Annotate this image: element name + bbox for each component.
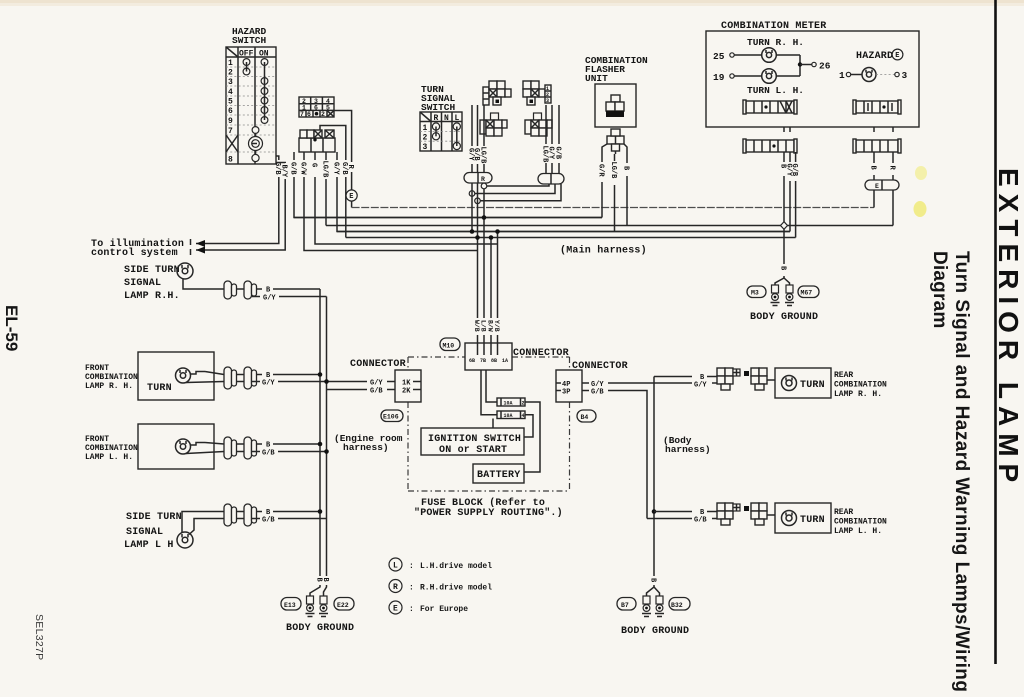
trunk wire G left bbox=[326, 297, 328, 519]
inline connectors side LH bbox=[224, 504, 257, 526]
turn R.H. indicator lamp bbox=[762, 48, 777, 63]
turn signal switch label bbox=[421, 84, 456, 113]
wires M10 to fuses bbox=[481, 370, 497, 415]
svg-text:LAMP L. H.: LAMP L. H. bbox=[85, 453, 133, 462]
wires side LH up to connectors bbox=[182, 512, 224, 535]
svg-text:7B: 7B bbox=[480, 358, 486, 364]
sidebar rule bbox=[994, 0, 997, 664]
inline connector capsule right bbox=[538, 174, 564, 185]
svg-text:1: 1 bbox=[228, 59, 233, 68]
svg-text:TURN L. H.: TURN L. H. bbox=[747, 85, 804, 96]
wire G/B to rear LH bbox=[647, 517, 717, 525]
trunk B labels left bbox=[310, 519, 329, 597]
svg-text:9: 9 bbox=[228, 117, 233, 126]
connector M10 capsule bbox=[440, 338, 460, 351]
svg-text:G/Y: G/Y bbox=[694, 382, 707, 390]
wire LG/B from turn signal switch bbox=[478, 105, 486, 173]
meter harness connector left bbox=[743, 139, 797, 156]
svg-text:5: 5 bbox=[228, 98, 233, 107]
svg-text::: : bbox=[409, 605, 414, 614]
svg-text:E: E bbox=[393, 605, 398, 614]
svg-text:1: 1 bbox=[839, 70, 845, 81]
svg-text:G/B: G/B bbox=[370, 388, 383, 396]
wire G/Y hazard to bus L4 bbox=[331, 152, 790, 232]
svg-text:6: 6 bbox=[307, 111, 311, 118]
rear LH harness connectors bbox=[717, 503, 775, 525]
svg-text:LAMP R. H.: LAMP R. H. bbox=[85, 382, 133, 391]
wire G/Y from turn signal switch bbox=[466, 105, 474, 173]
vertical wire x477.5 to connector M10 bbox=[477, 183, 479, 318]
svg-text:2: 2 bbox=[423, 134, 428, 143]
svg-text:LAMP R.H.: LAMP R.H. bbox=[124, 291, 180, 302]
rear combination lamp L.H. label bbox=[834, 508, 887, 536]
wire G/B right group bbox=[553, 105, 561, 174]
connector M67 capsule bbox=[798, 286, 819, 298]
svg-text:COMBINATION: COMBINATION bbox=[85, 444, 138, 453]
bus L4 wire G/Y bbox=[337, 231, 790, 233]
svg-text:R: R bbox=[393, 583, 398, 592]
svg-text:COMBINATION: COMBINATION bbox=[834, 381, 887, 390]
combination flasher unit box bbox=[595, 84, 636, 127]
hazard lamp label with Europe marker bbox=[856, 49, 903, 62]
svg-text:E106: E106 bbox=[383, 414, 399, 421]
connector B4 capsule bbox=[577, 410, 596, 422]
vertical wire x484 to connector M10 bbox=[483, 189, 485, 318]
svg-text:Y/B: Y/B bbox=[493, 320, 500, 332]
svg-text:B32: B32 bbox=[671, 602, 683, 609]
wires into M10 connector bbox=[478, 335, 498, 343]
svg-text:R.H.drive model: R.H.drive model bbox=[420, 584, 492, 593]
svg-text:LG/B: LG/B bbox=[320, 161, 328, 179]
ignition switch box bbox=[421, 428, 524, 456]
wire R from hazard grid via Europe marker to bus L1 bbox=[334, 111, 357, 208]
svg-text:harness): harness) bbox=[665, 444, 711, 455]
svg-text:G/B: G/B bbox=[288, 162, 296, 175]
wire B front RH to trunk bbox=[257, 372, 323, 380]
svg-text:LAMP L H: LAMP L H bbox=[124, 540, 174, 551]
svg-text:7: 7 bbox=[300, 111, 304, 118]
wire LG/B right group bbox=[540, 105, 548, 174]
svg-text:3: 3 bbox=[228, 78, 233, 87]
wire fuse lower to ignition switch bbox=[524, 415, 533, 437]
svg-text:CONNECTOR: CONNECTOR bbox=[513, 348, 569, 359]
body harness label bbox=[663, 435, 711, 455]
wire G/B B4 to rear LH bbox=[582, 389, 647, 519]
svg-text:SIDE TURN: SIDE TURN bbox=[124, 265, 180, 276]
svg-text:B7: B7 bbox=[621, 602, 629, 609]
crossover wire 2 between capsules bbox=[469, 184, 555, 196]
wire G/B from hazard switch row7 to illumination arrow bbox=[196, 156, 281, 244]
wire G/R flasher to bus L2 bbox=[596, 144, 607, 218]
fuse block chain outline bbox=[408, 357, 570, 491]
svg-text:COMBINATION: COMBINATION bbox=[834, 518, 887, 527]
highlighter mark 1 bbox=[915, 166, 927, 180]
svg-text:W/B: W/B bbox=[473, 320, 480, 332]
svg-text:LAMP L. H.: LAMP L. H. bbox=[834, 527, 882, 536]
svg-text:ON: ON bbox=[259, 50, 269, 59]
svg-text:G/B: G/B bbox=[694, 517, 707, 525]
meter box lower ticks bbox=[784, 127, 893, 132]
inline connectors side RH bbox=[224, 281, 257, 299]
svg-text:2K: 2K bbox=[402, 388, 411, 396]
svg-text:4: 4 bbox=[228, 88, 233, 97]
front combination lamp L.H. label bbox=[85, 435, 138, 462]
svg-text:E13: E13 bbox=[284, 602, 296, 609]
fuse block label bbox=[414, 497, 563, 519]
wire G/Y side RH bbox=[252, 295, 327, 303]
wire G hazard to bus L6 bbox=[309, 152, 497, 244]
svg-text:B/W: B/W bbox=[487, 320, 494, 332]
vertical wire x491 from bus L5 to connector M10 bbox=[490, 238, 492, 319]
combination meter box bbox=[706, 31, 919, 127]
svg-text:SIDE TURN: SIDE TURN bbox=[126, 512, 182, 523]
svg-text:HAZARD: HAZARD bbox=[856, 51, 893, 62]
meter pin 1 bbox=[839, 70, 862, 81]
wire LG/B hazard to bus L3 bbox=[320, 152, 328, 226]
svg-text:3: 3 bbox=[546, 98, 549, 104]
inline connectors front RH bbox=[224, 367, 257, 389]
rear combination lamp R.H. box bbox=[775, 368, 831, 398]
hazard indicator lamp bbox=[862, 68, 876, 82]
side turn signal lamp L.H. label bbox=[124, 512, 182, 551]
M10 fuse block connector box bbox=[465, 343, 512, 370]
meter pin 26 bbox=[812, 61, 831, 72]
body ground M3 M67 assembly bbox=[771, 285, 795, 306]
body ground B7 B32 assembly bbox=[642, 596, 664, 617]
svg-text:TURN: TURN bbox=[147, 383, 172, 394]
svg-text:G: G bbox=[309, 163, 317, 167]
battery box bbox=[473, 464, 524, 483]
connector B32 capsule bbox=[669, 598, 690, 611]
svg-text:SIGNAL: SIGNAL bbox=[126, 527, 163, 538]
svg-text:EXTERIOR LAMP: EXTERIOR LAMP bbox=[993, 168, 1024, 489]
svg-text:FRONT: FRONT bbox=[85, 435, 109, 444]
wire B/Y from hazard switch row8 to illumination arrow bbox=[196, 163, 288, 251]
svg-text:3P: 3P bbox=[562, 389, 570, 397]
highlighter mark 2 bbox=[914, 201, 927, 217]
svg-text:Turn Signal and Hazard Warning: Turn Signal and Hazard Warning Lamps/Wir… bbox=[951, 251, 972, 692]
legend E bbox=[389, 601, 468, 614]
bus L3 wire LG/B bbox=[326, 225, 893, 227]
svg-text:LG/B: LG/B bbox=[609, 162, 617, 180]
svg-text:G/B: G/B bbox=[262, 517, 275, 525]
svg-text:BODY GROUND: BODY GROUND bbox=[286, 623, 354, 634]
svg-text:REAR: REAR bbox=[834, 508, 853, 517]
wire G/B side LH joining trunk bbox=[252, 517, 327, 525]
meter internal connector left bbox=[743, 100, 797, 114]
svg-text:M10: M10 bbox=[443, 343, 455, 350]
svg-text:3: 3 bbox=[423, 143, 428, 152]
svg-text:2: 2 bbox=[321, 111, 325, 118]
wire B meter right to capsule E bbox=[868, 156, 876, 180]
svg-text:B4: B4 bbox=[581, 414, 589, 421]
svg-text:B/Y: B/Y bbox=[280, 165, 288, 178]
turn signal harness connector upper left bbox=[483, 81, 511, 105]
wire G/B meter to bus L5 bbox=[790, 156, 798, 238]
wire B side RH bbox=[257, 287, 321, 295]
bus L2 wire G/B bbox=[294, 217, 602, 219]
front combination lamp R.H. label bbox=[85, 364, 138, 391]
inline connector capsule E meter bbox=[865, 180, 899, 190]
legend R bbox=[389, 580, 492, 593]
wire B to rear LH bbox=[654, 509, 717, 517]
svg-text:SWITCH: SWITCH bbox=[232, 35, 267, 46]
svg-text:G/B: G/B bbox=[591, 389, 604, 397]
hazard switch contact table bbox=[226, 47, 276, 165]
svg-text:10A: 10A bbox=[504, 401, 513, 407]
svg-text:control system: control system bbox=[91, 247, 178, 259]
svg-text:G/Y: G/Y bbox=[262, 380, 275, 388]
svg-text:BODY GROUND: BODY GROUND bbox=[621, 626, 689, 637]
svg-text:BODY GROUND: BODY GROUND bbox=[750, 312, 818, 323]
svg-text:G/Y: G/Y bbox=[546, 147, 554, 160]
side turn signal lamp L.H. bulb bbox=[177, 532, 193, 548]
wire B side LH to trunk bbox=[257, 509, 323, 517]
To illumination control system text bbox=[91, 238, 191, 259]
svg-text:G/B: G/B bbox=[790, 164, 798, 177]
svg-text:8B: 8B bbox=[491, 358, 497, 364]
svg-text:For Europe: For Europe bbox=[420, 605, 468, 614]
svg-text:6: 6 bbox=[228, 107, 233, 116]
svg-text:TURN R. H.: TURN R. H. bbox=[747, 37, 804, 48]
svg-text::: : bbox=[409, 562, 414, 571]
front combination lamp L.H. box bbox=[138, 424, 214, 469]
svg-text:L: L bbox=[393, 562, 398, 571]
bus L5 wire G/B bbox=[346, 237, 796, 239]
wire R meter right to capsule E bbox=[887, 156, 895, 180]
svg-text:G/Y: G/Y bbox=[370, 380, 383, 388]
combination flasher unit label bbox=[585, 55, 648, 84]
inline connector capsule R bbox=[464, 173, 492, 184]
svg-text:M67: M67 bbox=[801, 290, 813, 297]
crossover wire 1 between capsules bbox=[481, 183, 549, 189]
turn L.H. indicator lamp bbox=[762, 69, 777, 84]
svg-text:G/W: G/W bbox=[298, 162, 306, 175]
wire LG/B flasher to bus L4 bbox=[609, 154, 617, 232]
connector E22 capsule bbox=[334, 598, 354, 611]
hazard switch connector block bbox=[299, 130, 335, 152]
svg-text:2: 2 bbox=[228, 69, 233, 78]
trunk wire B right bbox=[654, 374, 717, 576]
svg-text:10A: 10A bbox=[504, 413, 513, 419]
svg-text:"POWER SUPPLY ROUTING".): "POWER SUPPLY ROUTING".) bbox=[414, 507, 563, 519]
turn signal harness connector lower left bbox=[480, 113, 507, 136]
svg-text:3: 3 bbox=[902, 70, 908, 81]
flasher unit connector bbox=[607, 129, 624, 154]
svg-text:25: 25 bbox=[713, 51, 725, 62]
engine room harness connector box E106 bbox=[395, 370, 421, 402]
rear combination lamp L.H. box bbox=[775, 503, 831, 533]
svg-text:UNIT: UNIT bbox=[585, 73, 608, 84]
meter pin 25 bbox=[713, 51, 762, 62]
bus L1 wire R bbox=[352, 207, 874, 209]
svg-text:6: 6 bbox=[314, 105, 318, 112]
wire lamp2 to node bbox=[776, 75, 800, 77]
svg-text:OFF: OFF bbox=[239, 50, 254, 59]
junction dots on buses bbox=[470, 229, 475, 234]
svg-text:COMBINATION: COMBINATION bbox=[85, 373, 138, 382]
svg-text:TURN: TURN bbox=[800, 515, 825, 526]
svg-text:harness): harness) bbox=[343, 442, 389, 453]
wire G/B hazard to bus L2 bbox=[288, 152, 602, 218]
svg-text:E: E bbox=[349, 193, 353, 201]
wire G/Y B4 to rear RH bbox=[582, 381, 717, 390]
svg-text:L/B: L/B bbox=[480, 320, 487, 332]
wire side RH lamp to connectors bbox=[183, 279, 224, 289]
svg-text:BATTERY: BATTERY bbox=[477, 470, 520, 481]
side turn signal lamp R.H. bulb bbox=[177, 263, 193, 279]
body harness connector box B4 bbox=[556, 370, 582, 402]
svg-text:1K: 1K bbox=[402, 380, 411, 388]
svg-text:N: N bbox=[444, 114, 449, 123]
hazard switch label bbox=[232, 26, 267, 46]
wire G/W hazard to bus L7 bbox=[298, 152, 477, 251]
svg-text:Diagram: Diagram bbox=[929, 251, 950, 328]
wire G/B hazard over block to bus L5 bbox=[320, 126, 348, 238]
svg-text:G/R: G/R bbox=[596, 164, 604, 177]
meter pin 3 bbox=[876, 70, 908, 81]
meter pin 19 bbox=[713, 72, 762, 83]
wires front LH to connectors bbox=[186, 443, 224, 454]
meter internal connector right bbox=[853, 100, 901, 114]
svg-text:6B: 6B bbox=[469, 358, 475, 364]
trunk B label right bbox=[647, 578, 660, 596]
svg-text:(Main harness): (Main harness) bbox=[560, 245, 647, 257]
svg-text:LAMP R. H.: LAMP R. H. bbox=[834, 390, 882, 399]
side turn signal lamp R.H. label bbox=[124, 265, 180, 302]
arrow to illumination control system (lower) bbox=[196, 247, 205, 254]
svg-text:4: 4 bbox=[522, 413, 525, 419]
svg-text:7: 7 bbox=[228, 127, 233, 136]
rear combination lamp R.H. label bbox=[834, 371, 887, 399]
fuse 10A lower bbox=[497, 411, 525, 419]
wire G/Y front RH to connector E106 bbox=[252, 379, 395, 387]
turn signal harness connector upper right bbox=[523, 81, 551, 105]
rear RH harness connectors bbox=[717, 368, 775, 390]
svg-text:G/Y: G/Y bbox=[331, 162, 339, 175]
svg-text:L.H.drive model: L.H.drive model bbox=[420, 562, 492, 571]
svg-text:SIGNAL: SIGNAL bbox=[124, 278, 161, 289]
connector E106 capsule bbox=[381, 410, 403, 422]
svg-text::: : bbox=[409, 584, 414, 593]
svg-text:E: E bbox=[875, 183, 879, 190]
trunk wire B left bbox=[319, 289, 321, 576]
vertical wire x472 to bus L4 bbox=[471, 183, 473, 232]
wire G/B from turn signal switch bbox=[472, 105, 480, 173]
wire B meter to body ground bbox=[775, 156, 790, 285]
turn signal harness connector lower right bbox=[525, 113, 552, 136]
vertical wire x497.5 from bus L4 to connector M10 bbox=[497, 232, 499, 319]
front combination lamp R.H. box bbox=[138, 352, 214, 400]
svg-text:M3: M3 bbox=[751, 290, 759, 297]
stub fuse to ignition bbox=[492, 419, 494, 429]
svg-text:FRONT: FRONT bbox=[85, 364, 109, 373]
svg-text:LG/B: LG/B bbox=[478, 147, 486, 165]
svg-text:L: L bbox=[455, 114, 460, 123]
wire G/B connector E106 2K to trunk bbox=[327, 388, 396, 396]
hazard switch pin-number grid bbox=[299, 97, 334, 118]
svg-text:ON or START: ON or START bbox=[439, 445, 507, 456]
svg-text:E: E bbox=[895, 52, 899, 60]
svg-text:G/Y: G/Y bbox=[263, 295, 276, 303]
connector B7 capsule bbox=[617, 598, 636, 611]
connector E13 capsule bbox=[281, 598, 301, 611]
arrow to illumination control system (upper) bbox=[196, 240, 205, 247]
svg-text:G/B: G/B bbox=[262, 450, 275, 458]
svg-text:26: 26 bbox=[819, 61, 831, 72]
svg-text:8: 8 bbox=[228, 156, 233, 165]
svg-text:E22: E22 bbox=[337, 602, 349, 609]
svg-text:2: 2 bbox=[522, 401, 525, 407]
crossover wire 3 between capsules bbox=[475, 184, 561, 204]
legend L bbox=[389, 558, 492, 571]
svg-text:R: R bbox=[434, 114, 439, 123]
junction dot rear LH B bbox=[652, 509, 657, 514]
turn signal switch contact table bbox=[420, 112, 462, 152]
inline connectors front LH bbox=[224, 437, 257, 459]
wire G/Y meter to bus L4 bbox=[784, 156, 792, 232]
svg-text:1A: 1A bbox=[502, 358, 508, 364]
wire G/B front LH to trunk bbox=[252, 449, 329, 457]
engine room harness label bbox=[334, 433, 403, 453]
fuse 10A upper bbox=[497, 398, 525, 407]
svg-text:SEL327P: SEL327P bbox=[33, 614, 45, 660]
svg-text:REAR: REAR bbox=[834, 371, 853, 380]
wire lamp1 to node 26 bbox=[776, 55, 811, 76]
svg-text:G/B: G/B bbox=[553, 147, 561, 160]
svg-text:19: 19 bbox=[713, 72, 725, 83]
svg-text:EL-59: EL-59 bbox=[2, 305, 21, 351]
wire G/Y right group bbox=[546, 105, 554, 174]
connector M3 capsule bbox=[747, 286, 766, 298]
meter harness connector right bbox=[853, 139, 901, 156]
wire capsule E to bus L3 bbox=[892, 190, 894, 226]
wire B front LH to trunk bbox=[257, 442, 323, 450]
wire B flasher to bus L3 bbox=[621, 144, 629, 226]
svg-text:IGNITION SWITCH: IGNITION SWITCH bbox=[428, 434, 521, 445]
body ground E13 E22 assembly bbox=[306, 596, 329, 617]
svg-text:R: R bbox=[481, 176, 485, 183]
svg-text:1: 1 bbox=[423, 124, 428, 133]
wire capsule E to bus L1 bbox=[873, 190, 875, 208]
wires front RH to connectors bbox=[186, 372, 224, 383]
svg-text:TURN: TURN bbox=[800, 380, 825, 391]
svg-text:CONNECTOR: CONNECTOR bbox=[350, 359, 406, 370]
wire fuse upper to battery bbox=[524, 402, 540, 472]
